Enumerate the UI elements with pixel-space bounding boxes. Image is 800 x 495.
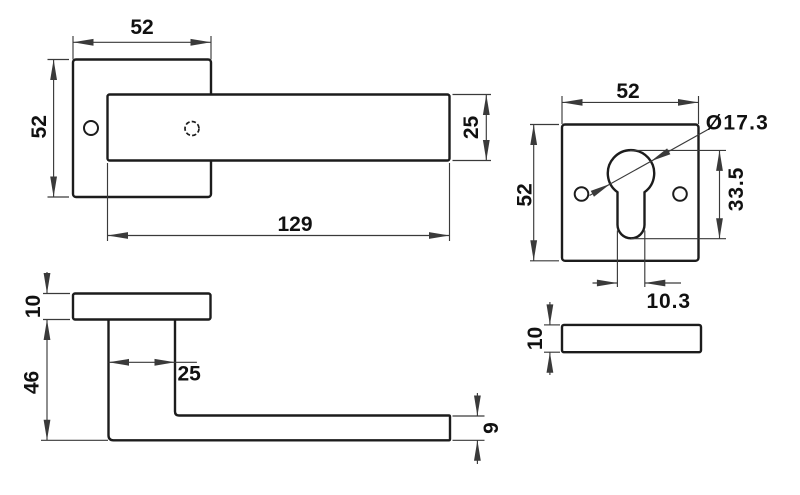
spindle hole (hidden, dashed) (185, 122, 199, 136)
dimension "52" rose width (top view) (73, 16, 211, 60)
screw hole (84, 121, 98, 135)
dimension "129" lever length (108, 163, 450, 241)
dimension "52" rose height (top view) (28, 60, 69, 198)
dimension "25" lever bar width (453, 95, 492, 161)
rose plate (side view) (73, 294, 211, 320)
dimension "33.5" keyhole height (630, 150, 748, 238)
dimension "52" escutcheon width (562, 80, 699, 124)
svg-text:25: 25 (178, 363, 202, 386)
svg-text:10: 10 (524, 327, 547, 350)
dimension "10.3" keyhole slot width (593, 231, 691, 314)
svg-text:52: 52 (616, 80, 639, 103)
svg-text:129: 129 (277, 213, 312, 236)
dimension "9" lever thickness (453, 393, 503, 464)
left screw hole (escutcheon) (575, 187, 589, 201)
lever bar (top view) (108, 95, 450, 161)
right screw hole (escutcheon) (673, 187, 687, 201)
rose plate (top view) (73, 60, 211, 198)
svg-text:Ø17.3: Ø17.3 (706, 111, 769, 134)
svg-text:25: 25 (460, 116, 483, 140)
euro profile cylinder keyhole (608, 150, 654, 238)
escutcheon plate (front view) (562, 125, 699, 261)
svg-text:33.5: 33.5 (725, 167, 748, 211)
escutcheon plate (side view) (562, 325, 701, 352)
svg-text:52: 52 (130, 16, 153, 39)
dimension "Ø17.3" cylinder hole diameter (590, 111, 770, 197)
dimension "10" rose thickness (22, 272, 70, 320)
svg-text:46: 46 (20, 371, 43, 394)
svg-text:10.3: 10.3 (646, 290, 690, 313)
dimension "52" escutcheon height (513, 125, 559, 261)
dimension "25" neck width (109, 359, 202, 386)
svg-text:10: 10 (22, 295, 45, 318)
dimension "46" handle height (20, 320, 108, 441)
svg-text:9: 9 (480, 422, 503, 434)
lever handle profile (side view) (109, 320, 451, 441)
svg-text:52: 52 (28, 115, 51, 138)
svg-text:52: 52 (513, 183, 536, 206)
dimension "10" escutcheon thickness (524, 302, 560, 375)
